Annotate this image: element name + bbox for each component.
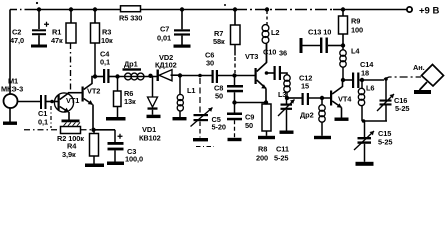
svg-text:18: 18	[361, 69, 369, 78]
svg-text:L6: L6	[366, 84, 374, 93]
node junction R3 rail	[93, 7, 97, 11]
node junction R1 rail	[69, 7, 73, 11]
svg-text:100,0: 100,0	[125, 155, 143, 164]
node junction R9 C13 L4	[341, 43, 345, 47]
svg-text:L4: L4	[351, 47, 360, 56]
wire emitter to R8	[235, 102, 267, 104]
antenna	[413, 63, 444, 94]
terminal +9V	[407, 7, 412, 12]
resistor R9	[339, 10, 364, 46]
svg-text:С11: С11	[276, 145, 289, 154]
ground VT4 emitter	[335, 118, 349, 121]
capacitor C5 variable	[191, 78, 226, 138]
wire oscillator base line	[180, 75, 212, 77]
svg-text:0,1: 0,1	[100, 58, 110, 67]
node junction L3 C11 C12	[285, 96, 289, 100]
svg-text:5-25: 5-25	[274, 154, 288, 163]
ground Dr2	[314, 136, 331, 139]
svg-text:L2: L2	[271, 28, 279, 37]
wire VT1 collector to VT2 base	[68, 92, 82, 94]
svg-text:R9: R9	[351, 17, 360, 26]
svg-text:200: 200	[256, 154, 268, 163]
svg-text:5-20: 5-20	[212, 123, 226, 132]
capacitor C13	[300, 28, 344, 54]
node junction C4 R6	[115, 74, 119, 78]
svg-text:С7: С7	[160, 25, 169, 34]
resistor R6	[114, 77, 137, 118]
ground C5	[193, 138, 208, 141]
wire top supply rail solid left	[29, 9, 121, 11]
shield dash artifact	[196, 146, 214, 148]
node junction C5 tap	[198, 74, 202, 78]
svg-text:С10: С10	[263, 48, 276, 57]
capacitor C14	[343, 60, 384, 88]
svg-text:3,9к: 3,9к	[62, 150, 76, 159]
transistor VT1	[54, 93, 79, 120]
svg-text:5-25: 5-25	[395, 104, 409, 113]
ground C3	[107, 162, 124, 166]
ground R6	[106, 117, 126, 121]
capacitor C1	[38, 95, 58, 127]
inductor L3	[278, 75, 290, 99]
capacitor C16 variable	[377, 77, 409, 121]
resistor R3	[91, 10, 114, 77]
svg-text:5-25: 5-25	[378, 138, 392, 147]
chassis ground VT1 emitter	[62, 120, 81, 126]
resistor R5	[119, 6, 142, 23]
svg-text:47,0: 47,0	[10, 36, 24, 45]
ground C11	[280, 131, 294, 134]
wire top supply rail right	[333, 9, 407, 11]
svg-text:47к: 47к	[51, 36, 63, 45]
wire top supply rail middle	[141, 9, 236, 11]
potentiometer R2	[57, 127, 84, 144]
svg-text:VT1: VT1	[66, 96, 79, 105]
node junction R7 rail	[233, 7, 237, 11]
capacitor C8	[214, 76, 243, 103]
diode VD1	[139, 76, 161, 143]
node junction R9 rail	[341, 7, 345, 11]
svg-text:Др1: Др1	[124, 60, 138, 69]
node junction C1 base	[50, 100, 54, 104]
node junction VT3 emitter R8	[264, 100, 268, 104]
node junction L2 rail	[265, 7, 269, 11]
ground C9	[228, 138, 242, 141]
microphone M1	[1, 77, 40, 122]
ground M1	[3, 122, 17, 125]
capacitor C11 variable	[274, 98, 295, 163]
svg-text:36: 36	[279, 49, 287, 58]
svg-text:VT3: VT3	[245, 52, 258, 61]
node junction L1 tap	[178, 73, 182, 77]
capacitor C4	[95, 50, 118, 84]
svg-text:0,01: 0,01	[157, 34, 171, 43]
capacitor C15 variable	[354, 121, 392, 162]
inductor L4	[340, 46, 361, 81]
speck dot 1	[36, 2, 38, 4]
node junction C7 rail	[180, 7, 184, 11]
ground C7	[174, 45, 191, 48]
capacitor C12	[299, 74, 330, 106]
ground C15	[356, 162, 374, 166]
inductor L6	[358, 78, 374, 121]
inductor choke Dr1	[118, 60, 157, 80]
svg-text:МКЭ-3: МКЭ-3	[1, 85, 23, 94]
svg-text:КД102: КД102	[155, 61, 177, 70]
svg-text:50: 50	[215, 92, 223, 101]
svg-text:50: 50	[245, 121, 253, 130]
svg-text:VT4: VT4	[338, 95, 352, 104]
wire left supply drop to microphone	[9, 10, 11, 95]
svg-text:58к: 58к	[213, 37, 225, 46]
transistor VT4	[330, 80, 352, 118]
node junction C2 rail	[37, 7, 41, 11]
wire emitter bus	[94, 129, 116, 131]
wire top supply rail dash-dot middle	[235, 9, 333, 11]
node junction C6 C8 base	[232, 73, 236, 77]
wire antenna feed dashed	[384, 77, 421, 79]
resistor R7	[213, 10, 240, 74]
node junction R3 C4 VT2	[93, 74, 97, 78]
speck dot 2	[224, 4, 226, 6]
svg-text:30: 30	[206, 59, 214, 68]
svg-text:0,1: 0,1	[38, 118, 48, 127]
resistor R4	[62, 130, 99, 164]
capacitor C6	[205, 51, 255, 84]
resistor R1	[51, 10, 76, 93]
ground R8	[258, 136, 275, 139]
wire L3 to C12	[287, 97, 302, 99]
svg-text:100: 100	[351, 26, 363, 35]
wire antenna tank bottom	[362, 120, 387, 122]
capacitor C10	[263, 48, 287, 81]
node junction L6 C15	[362, 119, 366, 123]
capacitor C9	[227, 105, 254, 138]
svg-text:VT2: VT2	[87, 87, 100, 96]
svg-text:КВ102: КВ102	[139, 134, 161, 143]
capacitor C2	[10, 10, 49, 46]
inductor L1	[177, 76, 195, 118]
node junction emitter bus	[91, 128, 95, 132]
wire top supply rail left dash-dot	[10, 9, 29, 11]
node junction C8 C9 emitter	[232, 100, 236, 104]
inductor L2	[262, 11, 279, 63]
svg-text:Др2: Др2	[300, 111, 314, 120]
svg-text:R5 330: R5 330	[119, 14, 142, 23]
node junction L4 C14 collector	[341, 78, 345, 82]
transistor VT3	[245, 44, 267, 103]
shield dash-dot microphone section	[24, 106, 93, 130]
svg-text:L1: L1	[187, 86, 195, 95]
diode VD2	[155, 53, 180, 81]
svg-text:С13 10: С13 10	[308, 28, 331, 37]
svg-text:Ан.: Ан.	[413, 63, 425, 72]
ground C2	[31, 45, 47, 48]
ground VD1	[147, 115, 161, 118]
svg-text:15: 15	[301, 82, 309, 91]
ground L1	[173, 117, 187, 120]
inductor choke Dr2	[300, 98, 325, 136]
ground R4	[85, 164, 104, 168]
svg-text:R8: R8	[258, 145, 267, 154]
node junction C12 Dr2 base	[320, 96, 324, 100]
node junction VD1 tap	[148, 74, 152, 78]
transistor VT2	[82, 77, 101, 130]
svg-text:+9 В: +9 В	[419, 6, 439, 17]
capacitor C3	[108, 130, 144, 164]
resistor R8	[256, 103, 271, 163]
svg-text:13к: 13к	[124, 97, 136, 106]
svg-text:10к: 10к	[101, 36, 113, 45]
capacitor C7	[157, 10, 190, 45]
